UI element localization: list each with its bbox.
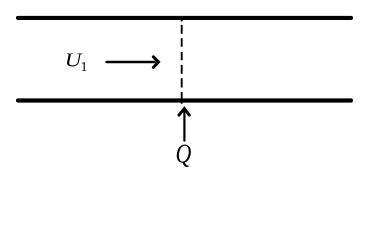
bottom wall line: [18, 98, 351, 102]
velocity arrow U1: [107, 61, 155, 64]
top wall line: [18, 16, 351, 20]
dashed centerline node: [181, 19, 183, 104]
svg-text:1: 1: [81, 60, 88, 75]
injection arrow Q: [183, 112, 185, 141]
diagram: channel flow with inlet velocity U1 and injection Q: [0, 0, 369, 191]
svg-text:Q: Q: [176, 140, 192, 170]
